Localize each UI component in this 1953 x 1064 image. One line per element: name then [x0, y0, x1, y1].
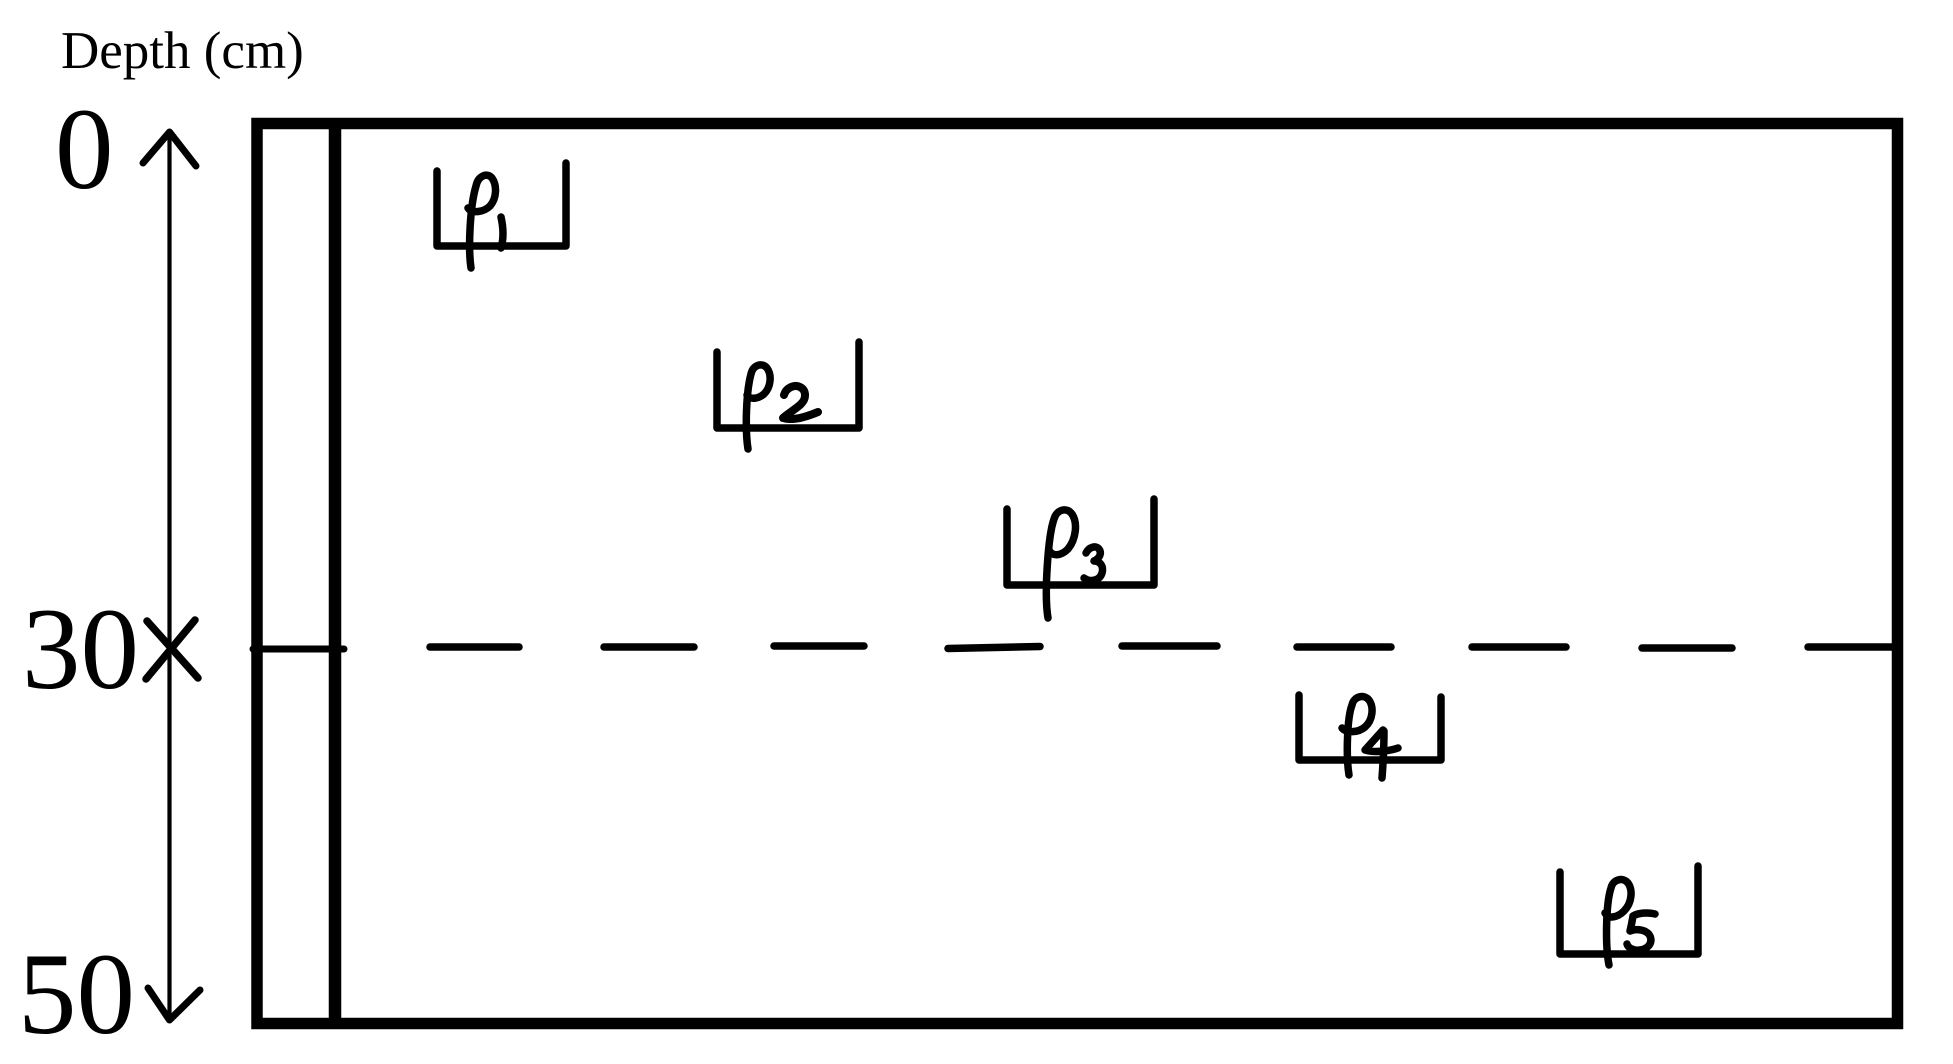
density label rho3 glyph [1046, 510, 1102, 618]
density label rho2 bracket [717, 342, 859, 428]
inner vertical divider line [329, 118, 342, 1029]
svg-text:30: 30 [22, 585, 139, 714]
X marker at depth 30 [146, 620, 198, 679]
density label rho1 bracket [437, 163, 566, 246]
container rectangle [257, 124, 1898, 1024]
depth axis line [167, 136, 171, 1017]
density label rho3 bracket [1007, 499, 1154, 585]
density label rho1 glyph [468, 175, 503, 268]
svg-text:0: 0 [55, 85, 114, 214]
density label rho5 bracket [1560, 866, 1698, 954]
tick line at depth 30 on container wall [253, 646, 344, 653]
density label rho4 glyph [1342, 697, 1398, 778]
depth axis arrowhead top [143, 132, 196, 166]
dashed line at depth 30 [430, 646, 1894, 649]
depth axis arrowhead bottom [148, 988, 200, 1020]
density label rho5 glyph [1605, 880, 1655, 965]
svg-text:Depth (cm): Depth (cm) [61, 22, 304, 80]
density label rho4 bracket [1299, 695, 1441, 760]
density label rho2 glyph [746, 365, 818, 449]
svg-text:50: 50 [18, 930, 135, 1059]
